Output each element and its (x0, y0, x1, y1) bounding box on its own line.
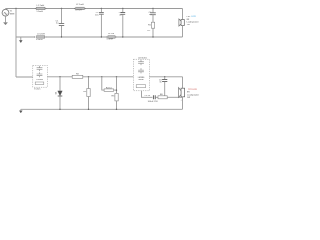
wire left drop (15, 9, 17, 78)
wire R4 loop (102, 77, 104, 90)
node N001 junction (15, 8, 16, 9)
svg-text:4u: 4u (119, 15, 122, 17)
node C5 top junction (164, 76, 165, 77)
svg-text:R3: R3 (83, 91, 87, 93)
svg-text:V1: V1 (10, 11, 13, 13)
node R5 top junction (116, 76, 117, 77)
svg-text:8R: 8R (187, 19, 190, 21)
resistor R4 (104, 89, 114, 91)
node D1 top junction (59, 76, 60, 77)
node C3 bottom junction (122, 36, 123, 37)
svg-text:LM386: LM386 (36, 79, 43, 81)
resistor R5 (115, 93, 118, 101)
node C2 top junction (101, 8, 102, 9)
svg-text:1.5mH: 1.5mH (36, 11, 43, 13)
node C3 top junction (122, 8, 123, 9)
module U1 dashed box (33, 65, 48, 87)
svg-text:3u: 3u (159, 82, 162, 84)
inductor L3 (34, 36, 35, 37)
wire row2 ground rail (16, 36, 183, 38)
node C2 bottom junction (101, 36, 102, 37)
svg-text:U2 8ohm: U2 8ohm (138, 57, 147, 59)
resistor R3 (87, 89, 90, 97)
svg-text:100uF 25V: 100uF 25V (148, 101, 159, 103)
wire D1 branch (59, 77, 61, 91)
U2 upper cap glyph (138, 60, 144, 65)
speaker LS1 (181, 20, 184, 26)
capacitor C4 (152, 9, 154, 13)
U2 inner box (136, 85, 145, 88)
ground arrow row2 (20, 37, 22, 40)
wire mid rail (47, 76, 133, 78)
resistor R2 (72, 75, 83, 78)
svg-text:SINE: SINE (10, 14, 15, 16)
node R4 top junction (101, 76, 102, 77)
capacitor C3 (122, 9, 124, 13)
wire R5 branch (116, 77, 118, 94)
svg-text:1W: 1W (187, 24, 190, 26)
wire top rail (6, 8, 183, 10)
resistor R6 (158, 96, 167, 99)
svg-text:8.2R: 8.2R (191, 16, 196, 18)
inductor L4 (106, 36, 107, 37)
wire top right corner (182, 9, 184, 20)
wire row3 ground rail (21, 108, 183, 110)
wire V1 top stub (5, 8, 7, 11)
wire U2 bottom pin (142, 91, 153, 98)
ground arrow row3 (20, 109, 22, 110)
capacitor C2 (100, 9, 102, 13)
svg-text:8R: 8R (187, 92, 190, 94)
svg-text:L4 1m: L4 1m (108, 33, 114, 35)
capacitor C5 (164, 77, 166, 79)
U1 inner box (35, 82, 44, 85)
wire V1 bottom stub (5, 16, 7, 22)
svg-text:4u: 4u (56, 23, 59, 25)
voltage source V1 (2, 9, 9, 16)
resistor R1 (151, 22, 154, 28)
svg-text:L2 1mH: L2 1mH (76, 4, 84, 6)
node R5 bottom junction (116, 109, 117, 110)
node C1 bottom junction (61, 36, 62, 37)
capacitor C1 (61, 9, 63, 24)
svg-text:C6 1u: C6 1u (145, 95, 151, 97)
svg-text:1W: 1W (187, 97, 190, 99)
svg-text:R4 10: R4 10 (106, 87, 113, 89)
svg-text:0.5mH: 0.5mH (36, 39, 43, 41)
U1 upper cap glyph (37, 66, 43, 71)
node C4 top junction (152, 8, 153, 9)
wire U2 right to speaker2 (149, 76, 182, 78)
svg-text:R2: R2 (76, 73, 80, 75)
module U2 dashed box (133, 59, 149, 91)
node R1 bottom junction (152, 36, 153, 37)
node R3 top junction (88, 76, 89, 77)
ground GND1 (3, 23, 7, 25)
svg-text:8ohm: 8ohm (138, 79, 143, 81)
wire into box1 (16, 76, 33, 78)
svg-text:L1 2mH: L1 2mH (37, 5, 45, 7)
svg-text:D1: D1 (55, 91, 57, 95)
svg-text:0.3mH: 0.3mH (107, 38, 114, 40)
U2 lower cap glyph (138, 68, 144, 73)
inductor L2 (74, 8, 75, 9)
svg-text:TP2 8.2R: TP2 8.2R (188, 89, 197, 91)
svg-text:10u: 10u (95, 15, 99, 17)
svg-text:Loudspeaker: Loudspeaker (187, 93, 199, 96)
node R3 bottom junction (88, 109, 89, 110)
node D1 bottom junction (59, 109, 60, 110)
speaker LS2 (181, 88, 185, 97)
node C1 top junction (61, 8, 62, 9)
svg-text:R5: R5 (112, 96, 116, 98)
inductor L1 (35, 8, 36, 9)
svg-text:8.2: 8.2 (147, 30, 151, 32)
wire R3 branch (88, 77, 90, 89)
svg-text:L3 2mH: L3 2mH (37, 34, 45, 36)
U1 lower cap glyph (37, 72, 43, 77)
svg-text:8 ohm: 8 ohm (34, 89, 40, 91)
wire speaker2 top (182, 77, 184, 88)
svg-text:0.7mH: 0.7mH (75, 10, 82, 12)
diode D1 (58, 91, 63, 96)
capacitor C6 (153, 95, 155, 99)
